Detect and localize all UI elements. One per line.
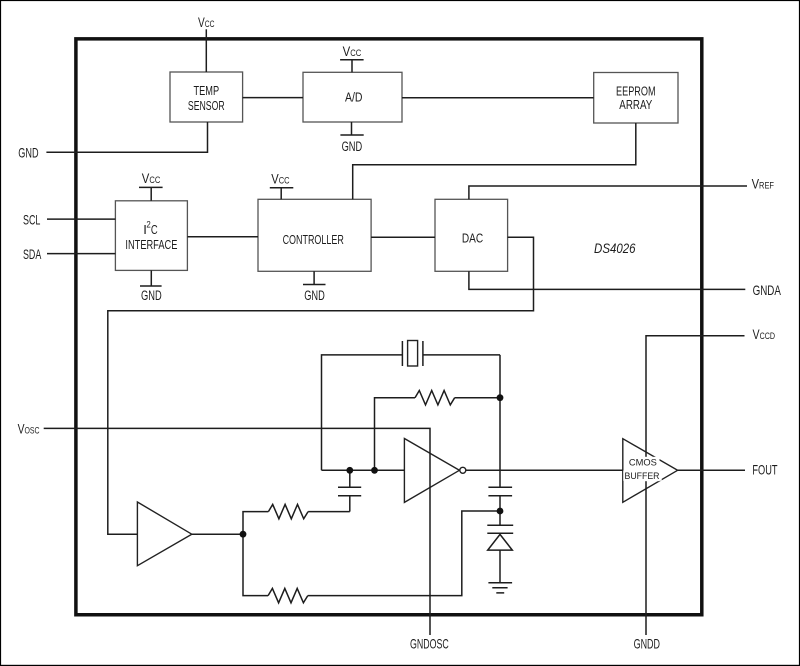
GND bar below I2C interface [140,270,162,286]
crystal Y1 left plate [401,341,403,366]
svg-text:BUFFER: BUFFER [625,471,660,482]
svg-text:GNDD: GNDD [634,635,660,651]
svg-text:GNDOSC: GNDOSC [410,635,449,651]
wire SCL pin to I2C interface [47,218,115,220]
svg-text:DAC: DAC [462,231,483,246]
resistor R series upper zigzag [268,504,308,518]
svg-text:TEMP: TEMP [194,83,220,98]
wire I2C interface to CONTROLLER [187,236,258,238]
wire VOSC pin to GNDOSC pin rail [44,428,430,635]
resistor R series lower zigzag [268,588,308,602]
capacitor C2 load plates [488,487,512,496]
svg-text:DS4026: DS4026 [594,240,636,256]
block TEMP SENSOR [170,72,243,122]
GND bar below CONTROLLER [303,271,326,284]
chip boundary box [76,39,702,615]
wire CONTROLLER to DAC [371,236,435,238]
wire CMOS buffer output to FOUT pin [678,469,745,471]
svg-text:GND: GND [342,139,363,154]
capacitor C1 input plates [338,487,361,496]
VCC rail bar above CONTROLLER [270,188,294,200]
block DAC [435,199,508,271]
wire GND pin to TEMP SENSOR bottom [46,122,207,152]
amplifier U2 triangle [137,502,191,566]
svg-text:CONTROLLER: CONTROLLER [283,232,344,247]
svg-text:SENSOR: SENSOR [188,98,225,113]
svg-text:C: C [151,222,158,237]
junction node crystal/resistor [497,394,504,401]
label EEPROM ARRAY [616,83,656,112]
wire diode to ground [499,550,501,583]
block A/D [303,72,402,122]
resistor R feedback zigzag [415,391,455,405]
inverter U1 triangle [404,439,459,503]
svg-text:ARRAY: ARRAY [619,97,652,112]
wire DAC right to oscillator amp input [108,237,534,534]
block I2C INTERFACE [115,201,187,271]
varactor diode body [488,534,513,550]
wire TEMP SENSOR to A/D [243,97,303,99]
wire lower resistor to varactor node [308,511,500,596]
junction node on inverter input (resistor branch) [371,467,378,474]
block EEPROM ARRAY [594,73,678,124]
ground symbol [488,583,512,593]
wire VREF pin to DAC top [469,186,747,199]
VCC rail bar above A/D [340,60,364,73]
svg-text:GND: GND [304,288,325,303]
svg-text:FOUT: FOUT [752,462,777,478]
wire VCCD pin to GNDD pin rail [646,336,745,635]
wire varactor node to varactor cap [499,511,501,525]
wire crystal right branch [423,354,500,356]
block CONTROLLER [258,199,371,271]
CMOS buffer U3 triangle [623,439,678,503]
label TEMP SENSOR [188,83,225,113]
GND bar below A/D [340,122,363,135]
wire inverter output to CMOS buffer [466,469,623,471]
svg-text:A/D: A/D [345,90,363,105]
wire DAC bottom to GNDA pin [469,271,745,289]
wire feedback resistor to crystal node [455,397,500,399]
crystal Y1 right plate [422,341,424,366]
svg-text:SCL: SCL [23,212,41,228]
svg-text:SDA: SDA [23,246,42,262]
junction node on inverter input (cap branch) [346,467,353,474]
svg-text:GNDA: GNDA [753,282,782,298]
inverter U1 output bubble [460,467,466,473]
junction node amp output [240,531,247,538]
label I2C INTERFACE [125,220,177,252]
VCC rail bar above I2C interface [139,187,163,200]
crystal Y1 body [408,341,418,367]
junction node varactor [497,508,504,515]
wire SDA pin to I2C interface [47,253,115,255]
svg-text:GND: GND [141,288,162,303]
white halo behind CMOS BUFFER text [627,457,660,481]
wire crystal loop left branch [322,355,403,470]
label CMOS BUFFER [625,457,660,482]
wire load cap to varactor node [499,496,501,508]
wire feedback resistor branch [375,398,416,471]
varactor capacitor plates [487,525,513,533]
wire VCC top stem into TEMP SENSOR [205,29,207,72]
wire EEPROM ARRAY to CONTROLLER top [353,123,636,199]
wire amp node up branch [243,512,268,535]
wire inverter input net [322,469,405,471]
svg-text:GND: GND [18,144,38,160]
wire upper resistor to C1 [308,511,350,513]
wire C1 bottom to series resistor line [349,496,351,512]
wire small amp output to node [192,533,243,535]
wire amp node down branch [243,534,268,595]
wire input cap branch [349,470,351,487]
svg-text:CMOS: CMOS [629,457,657,468]
svg-text:INTERFACE: INTERFACE [125,237,177,252]
wire A/D to EEPROM ARRAY [402,97,594,99]
wire crystal node down to load cap [499,355,501,487]
